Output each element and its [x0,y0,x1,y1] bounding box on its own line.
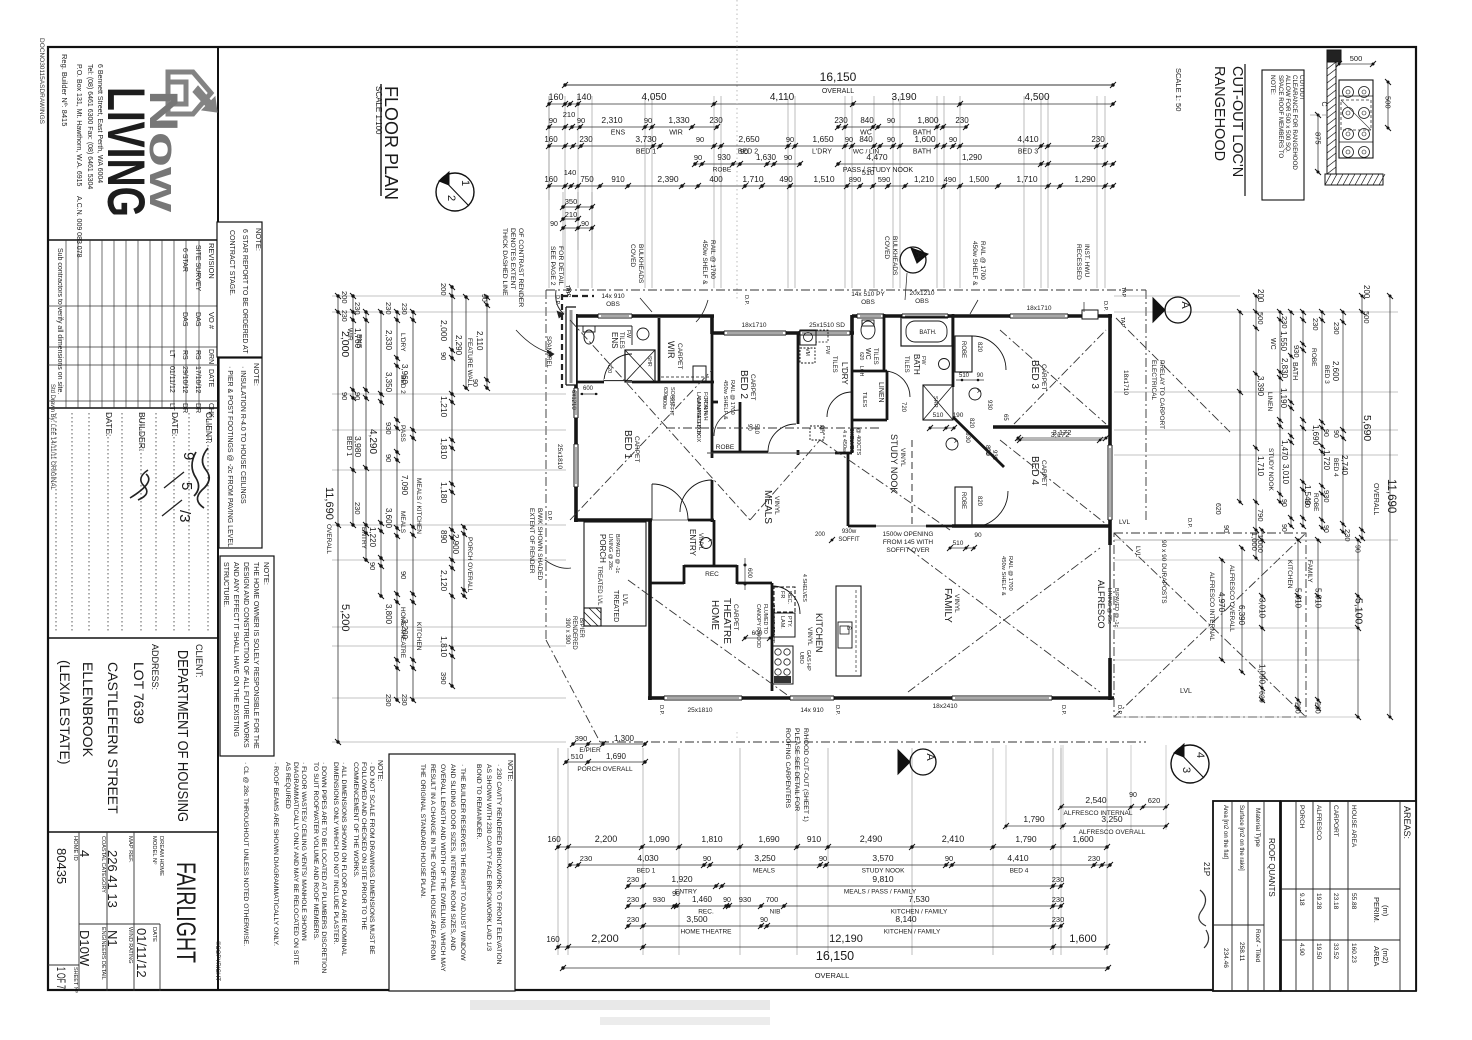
top extension lines [548,96,550,288]
svg-text:1,210: 1,210 [439,396,449,418]
svg-text:200: 200 [439,283,448,296]
svg-text:S: S [845,626,851,630]
svg-text:16,150: 16,150 [816,949,854,963]
window 25x1810 bed1 left [574,444,578,487]
svg-text:4 SHELVES: 4 SHELVES [801,574,807,602]
svg-text:NOTE:: NOTE: [254,228,263,251]
mh manhole [810,426,824,440]
right col family 5010 [1317,540,1319,708]
linen top wall [852,370,887,373]
svg-text:930: 930 [964,432,971,443]
svg-text:25x1810: 25x1810 [688,707,713,714]
svg-text:TO SUIT ROOFWATER VOLUME AND R: TO SUIT ROOFWATER VOLUME AND ROOF MEMBER… [312,762,319,940]
window 18x1710 bed3 [1010,314,1068,318]
roof diagonal theatre [628,580,790,697]
svg-text:P.O. Box 131, Mt. Hawthorn, W.: P.O. Box 131, Mt. Hawthorn, W.A. 6915 [75,64,82,187]
svg-text:ROBE: ROBE [960,492,966,509]
svg-text:DREAM HOME: DREAM HOME [158,836,164,876]
exterior wall bottom theatre section [648,696,664,700]
svg-text:3,010: 3,010 [1281,464,1290,485]
svg-text:1,790: 1,790 [1023,814,1045,824]
svg-text:90: 90 [723,897,731,904]
svg-text:3,172: 3,172 [1053,428,1072,437]
svg-text:COASTAL CATEGORY: COASTAL CATEGORY [100,836,106,893]
bath shower box [923,385,953,420]
study nook bottom wall left [848,525,876,528]
roof quants table outer [1213,801,1280,991]
svg-text:930: 930 [717,153,731,162]
svg-text:230: 230 [955,116,969,125]
svg-text:230: 230 [1052,895,1065,904]
svg-text:CARPET: CARPET [732,604,739,630]
svg-text:OVERALL LENGTH AND WIDTH OF TH: OVERALL LENGTH AND WIDTH OF THE DWELLING… [439,764,446,972]
svg-text:3,960: 3,960 [400,364,409,385]
svg-text:90 x 90 DURAPOSTS: 90 x 90 DURAPOSTS [1160,540,1167,604]
svg-text:SCALE 1:100: SCALE 1:100 [374,86,383,135]
svg-text:ENS: ENS [610,332,619,348]
top dim row 5 robe pass study nook [695,163,800,165]
svg-text:01/11/12: 01/11/12 [134,928,149,978]
svg-text:FOR N/H: FOR N/H [702,398,708,421]
svg-text:18x1710: 18x1710 [1027,305,1052,312]
svg-text:2,120: 2,120 [439,570,449,592]
svg-text:DIMENSIONS ONLY WHICH DO NOT I: DIMENSIONS ONLY WHICH DO NOT INCLUDE PLA… [332,762,339,945]
svg-text:18x1710: 18x1710 [1122,370,1129,395]
svg-text:DR: DR [181,403,188,413]
svg-text:· ROOF BEAMS ARE SHOWN DIAGR: · ROOF BEAMS ARE SHOWN DIAGRAMMATICALLY … [272,762,279,946]
svg-text:PTY.: PTY. [786,616,792,628]
svg-text:NOTE:: NOTE: [376,760,383,781]
svg-text:19.28: 19.28 [1315,893,1322,910]
svg-text:600: 600 [583,386,594,392]
svg-text:CARPORT: CARPORT [1332,805,1339,837]
eaves outline dashed top [546,289,1146,291]
svg-text:4 x 450w: 4 x 450w [841,430,847,452]
svg-text:930: 930 [384,422,393,435]
svg-text:1: 1 [459,180,471,186]
svg-text:PLEASE SEE DETAIL FOR: PLEASE SEE DETAIL FOR [793,728,800,811]
svg-text:CONTRACT STAGE.: CONTRACT STAGE. [228,230,235,296]
wall bed2 bottom [712,451,768,454]
svg-text:REC.: REC. [786,591,792,605]
svg-text:820: 820 [976,342,982,353]
right col 3010 1090 [1261,530,1263,700]
svg-text:2,600: 2,600 [1331,361,1340,382]
svg-text:230: 230 [353,502,362,515]
svg-text:LVL: LVL [621,594,628,606]
svg-text:90: 90 [1129,792,1137,799]
svg-text:THE ORIGINAL STANDARD HOUSE PL: THE ORIGINAL STANDARD HOUSE PLAN. [419,764,426,898]
svg-text:/3: /3 [176,510,193,523]
svg-text:875: 875 [1314,132,1323,145]
svg-text:1,600: 1,600 [914,134,936,144]
svg-text:3,390: 3,390 [1256,376,1265,397]
svg-text:90: 90 [887,135,895,144]
svg-text:18x2410: 18x2410 [933,703,958,710]
svg-text:2,410: 2,410 [942,834,965,844]
ens vanity [637,328,649,340]
svg-text:COMMENCEMENT OF THE WORKS.: COMMENCEMENT OF THE WORKS. [352,762,359,878]
contrast render dashed line [561,294,563,388]
svg-text:230: 230 [1052,875,1065,884]
svg-text:790: 790 [1256,509,1265,522]
left dim col 4290 entry 5200 [380,312,382,596]
svg-text:Std Drawn By: LEE 14/11/11 ORI: Std Drawn By: LEE 14/11/11 ORIGINAL [49,384,55,490]
window 18x2410 family [952,696,1052,700]
window 20x1210 OBS bath [902,314,948,318]
svg-text:1,540: 1,540 [1303,485,1312,506]
svg-text:4,500: 4,500 [1024,92,1049,103]
fold line center bottom faint [736,732,738,740]
fridge recess [774,587,795,612]
svg-text:500: 500 [1362,311,1371,324]
svg-text:PORCH OVERALL: PORCH OVERALL [466,537,473,593]
svg-text:A: A [924,753,936,761]
svg-text:4,410: 4,410 [1007,853,1029,863]
svg-text:2,310: 2,310 [601,115,623,125]
ldry fixtures tub wm [800,330,816,345]
kitchen island bench [836,586,861,676]
svg-text:90: 90 [399,571,408,579]
rangehood dim 875 left [1317,115,1319,172]
roof diagonal bed3 b [1014,330,1106,424]
window 14x510 PY OBS wc [857,314,884,318]
svg-text:90: 90 [439,352,448,360]
svg-text:2,200: 2,200 [591,933,619,945]
svg-text:23.18: 23.18 [1332,893,1339,910]
svg-text:TILES: TILES [831,356,837,373]
svg-text:DAS: DAS [181,312,188,327]
svg-text:1,710: 1,710 [1016,174,1038,184]
top dim row 2 main splits [549,103,1113,105]
right dim col study nook 3390 [1255,296,1257,558]
roof ridge horizontal [666,427,880,429]
NOW LIVING logo house icon [168,72,217,114]
svg-text:90: 90 [480,294,487,302]
svg-text:RANGEHOOD: RANGEHOOD [1211,66,1227,161]
pantry [774,613,795,637]
svg-text:OF CONTRAST RENDER: OF CONTRAST RENDER [517,228,524,307]
svg-text:620: 620 [1214,503,1221,515]
svg-text:BED 1: BED 1 [637,868,656,875]
roof quants grid [1263,801,1265,991]
rangehood detail wall bar bottom [1325,174,1383,185]
svg-text:ROBE: ROBE [716,444,735,451]
svg-text:200: 200 [1256,289,1265,303]
svg-text:PASS: PASS [399,425,406,443]
rangehood cooktop burners [1343,87,1354,98]
svg-text:490: 490 [944,175,957,184]
svg-text:NOTE:: NOTE: [506,760,513,781]
svg-text:FW: FW [920,356,926,365]
linen left wall [851,371,854,420]
svg-text:1,810: 1,810 [439,636,449,658]
alfresco diagonal a [1114,533,1306,717]
family top wall [952,524,1110,528]
svg-text:450w SHELF &: 450w SHELF & [971,241,978,286]
svg-text:2,740: 2,740 [1340,455,1349,476]
bottom extension lines [557,748,559,955]
svg-text:5,200: 5,200 [339,604,351,632]
svg-text:720: 720 [606,364,612,373]
ldry door swing [827,392,852,417]
bed3 robe box [955,336,972,372]
right dim col bath [1290,312,1292,526]
svg-text:AND SLIDING DOOR SIZES, INTERN: AND SLIDING DOOR SIZES, INTERNAL ROOM SI… [449,764,456,951]
svg-text:2,830: 2,830 [1280,358,1289,379]
svg-text:FR: FR [779,591,785,598]
svg-text:B/PAVED @ -1c: B/PAVED @ -1c [614,534,620,574]
svg-text:200: 200 [340,291,349,304]
svg-text:NIB: NIB [770,909,781,916]
bottom dim row 5 home theatre [628,925,1061,927]
svg-text:400: 400 [709,175,723,184]
svg-text:STRUCTURE.: STRUCTURE. [222,562,229,607]
wall entry right [713,520,716,566]
svg-text:RECESSED: RECESSED [1075,244,1082,280]
areas table outer [1281,801,1416,991]
right dim col wc linen [1279,312,1281,502]
svg-text:ENGINEERS DETAIL: ENGINEERS DETAIL [100,927,106,980]
svg-text:160: 160 [548,92,563,102]
svg-text:DR: DR [194,403,201,413]
section marker A bottom [910,749,936,775]
wc toilet [861,321,875,339]
svg-text:PORCH: PORCH [598,534,607,563]
svg-text:CLIENT:: CLIENT: [194,644,204,678]
svg-text:90: 90 [694,153,702,162]
svg-text:ELLENBROOK: ELLENBROOK [80,662,96,758]
svg-text:WC: WC [1269,338,1276,350]
svg-text:230: 230 [400,303,407,315]
svg-text:720: 720 [900,402,906,413]
dim 510 90 bed3 [956,379,984,381]
svg-text:510: 510 [953,540,964,547]
svg-text:230: 230 [1343,529,1352,542]
svg-text:4: 4 [1194,752,1206,758]
svg-text:4,030: 4,030 [637,853,659,863]
svg-text:90: 90 [368,562,377,570]
svg-text:THEATRE: THEATRE [721,598,732,644]
note box home owner responsibility [220,556,274,756]
right dim col bed3 side [1321,312,1323,528]
wall ens wir bottom [576,381,714,384]
wall meals study divider [851,420,854,453]
svg-text:14x 910: 14x 910 [800,707,824,714]
svg-text:BED 1: BED 1 [636,149,656,156]
spandrel feature wall section [566,307,576,385]
svg-text:450w SHELF &: 450w SHELF & [722,380,728,420]
svg-text:ROOFING CARPENTERS: ROOFING CARPENTERS [784,728,791,809]
window 18x1710 bed2 [724,331,786,335]
svg-text:VINYL: VINYL [953,594,960,613]
svg-text:A: A [952,439,958,443]
svg-text:D.P.: D.P. [743,295,749,305]
svg-text:510: 510 [571,752,584,761]
svg-text:PASS / STUDY NOOK: PASS / STUDY NOOK [843,167,913,174]
svg-text:90: 90 [340,392,349,400]
right dim col robe 930 [1302,312,1304,526]
entry door opening [652,519,688,521]
svg-text:NOTE:: NOTE: [1269,75,1276,95]
svg-text:ROOF QUANTS: ROOF QUANTS [1267,838,1276,897]
svg-text:FLUMED TO: FLUMED TO [762,604,768,634]
svg-text:350: 350 [565,197,578,206]
svg-text:BATH: BATH [1291,362,1298,380]
svg-text:NOTE:: NOTE: [252,363,261,386]
svg-text:2,330: 2,330 [384,330,393,351]
svg-text:BED 4: BED 4 [1010,868,1029,875]
svg-text:390 x 390: 390 x 390 [564,618,570,645]
logo box divider [48,239,218,241]
bottom dim row 2 rooms [570,864,1110,866]
svg-text:CARPET: CARPET [1040,460,1047,486]
svg-text:DATE: DATE [207,369,214,387]
wall theatre top left [650,582,684,585]
right dim col bed3 bed4 [1342,312,1344,532]
svg-text:NOTE:: NOTE: [262,562,271,585]
svg-text:WIR: WIR [669,130,683,137]
svg-text:RAIL @ 1700: RAIL @ 1700 [709,240,716,279]
svg-text:PRELAY TO CARPORT: PRELAY TO CARPORT [1158,360,1165,429]
svg-text:11,690: 11,690 [323,487,335,520]
svg-text:21P: 21P [1202,862,1211,876]
svg-text:A: A [913,251,925,259]
svg-text:90: 90 [703,854,711,863]
svg-text:234.46: 234.46 [1222,948,1229,968]
svg-text:THICK DASHED LINE: THICK DASHED LINE [501,228,508,296]
svg-text:230: 230 [1088,854,1101,863]
svg-text:Area [m2 on the flat]: Area [m2 on the flat] [1222,805,1228,859]
svg-text:VINYL: VINYL [697,533,703,551]
svg-text:6 Bennett Street, East Perth,: 6 Bennett Street, East Perth, WA 6004 [96,64,103,183]
svg-text:TILES: TILES [861,392,867,408]
svg-text:MEALS / PASS / FAMILY: MEALS / PASS / FAMILY [844,889,917,896]
svg-text:230: 230 [340,310,347,322]
left dim col meals kitchen outer [412,312,414,700]
svg-text:5,690: 5,690 [1361,415,1373,441]
bed4 robe box [955,487,972,527]
porch pier hatched [584,608,601,626]
svg-text:19.50: 19.50 [1315,943,1322,960]
svg-text:A: A [975,389,981,393]
svg-text:4,290: 4,290 [367,429,378,454]
svg-text:CLIENT:: CLIENT: [204,412,214,444]
top dim row 3 ens wir wc bath [549,126,717,128]
exterior wall top bed2 recessed [712,331,854,335]
alfresco overall row [1006,825,1166,827]
svg-text:SCALE 1: 50: SCALE 1: 50 [1174,68,1183,111]
svg-text:1,180: 1,180 [439,482,449,504]
svg-text:6,390: 6,390 [1237,605,1246,626]
svg-text:MEALS: MEALS [762,490,773,524]
svg-text:90: 90 [581,221,589,228]
svg-text:D.P.: D.P. [1060,705,1066,715]
svg-text:DESIGN AND CONSTRUCTION OF ALL: DESIGN AND CONSTRUCTION OF ALL FUTURE WO… [242,562,249,748]
svg-text:490: 490 [779,175,793,184]
svg-text:OBS: OBS [915,298,929,305]
svg-text:6 STAR REPORT TO BE ORDERED AT: 6 STAR REPORT TO BE ORDERED AT [241,229,248,354]
svg-text:LVL: LVL [1134,546,1141,557]
svg-text:5,010: 5,010 [1314,588,1323,609]
svg-text:DATE:: DATE: [170,412,180,436]
svg-text:1,710: 1,710 [742,174,764,184]
linen right wall [886,371,889,420]
note box 6 star report [217,222,262,357]
wir robe rail dashed [661,376,710,378]
svg-text:FW: FW [824,346,830,355]
svg-text:FAIRLIGHT: FAIRLIGHT [171,862,201,963]
fold line center top [736,0,738,300]
svg-text:25x1510 SD: 25x1510 SD [809,322,845,329]
svg-text:90: 90 [786,135,794,144]
svg-text:BATH: BATH [912,354,921,375]
svg-text:AND ANY EFFECT IT SHALL HAVE O: AND ANY EFFECT IT SHALL HAVE ON THE EXIS… [232,562,239,737]
svg-text:230: 230 [353,302,362,315]
svg-text:RAIL @ 1700: RAIL @ 1700 [729,380,735,415]
svg-text:1,220: 1,220 [368,527,377,548]
porch epier dim row [573,743,645,745]
svg-text:2,110: 2,110 [475,331,484,351]
rangehood cooktop outline [1339,80,1373,158]
step wall bed2 recess right [850,315,854,334]
svg-text:25x1810: 25x1810 [556,444,563,469]
svg-text:TREATED: TREATED [612,590,619,622]
svg-text:9.18: 9.18 [1298,893,1305,906]
areas table grid [1399,801,1401,991]
svg-text:A: A [1179,301,1191,309]
svg-text:16,150: 16,150 [820,70,857,84]
svg-text:OBS: OBS [606,301,620,308]
svg-text:4.90: 4.90 [1298,943,1305,956]
svg-text:840: 840 [859,135,873,144]
svg-text:890: 890 [849,175,862,184]
svg-text:OVERALL: OVERALL [822,88,854,95]
svg-text:90: 90 [384,454,393,462]
svg-text:2,540: 2,540 [1085,795,1107,805]
svg-text:EXTENT OF RENDER: EXTENT OF RENDER [528,508,535,574]
svg-text:1,460: 1,460 [692,895,713,904]
svg-text:230: 230 [627,915,640,924]
svg-text:29/10/12: 29/10/12 [181,366,188,393]
svg-text:TAP: TAP [1119,317,1125,328]
svg-text:FLOOR PLAN: FLOOR PLAN [381,86,401,200]
svg-text:DOCNO30115ASDRAWINGS: DOCNO30115ASDRAWINGS [38,38,45,125]
svg-text:230: 230 [1280,316,1289,329]
svg-text:1,800: 1,800 [917,115,939,125]
svg-text:REVISION: REVISION [207,243,216,279]
svg-text:D.P.: D.P. [1186,518,1192,528]
client address box divider [48,831,218,833]
svg-text:(m): (m) [1381,905,1390,917]
svg-text:840: 840 [860,116,874,125]
svg-text:600w: 600w [661,396,667,409]
svg-text:DRN: DRN [207,349,214,364]
svg-text:DENOTES EXTENT: DENOTES EXTENT [509,228,516,290]
kitchen sink [838,622,852,648]
svg-text:Roof - Tiled: Roof - Tiled [1254,929,1261,963]
ens shower [625,350,655,382]
svg-text:750: 750 [580,175,594,184]
svg-text:620: 620 [858,352,864,361]
svg-text:LVL: LVL [1180,688,1192,695]
section marker A top [900,247,926,273]
svg-text:3,570: 3,570 [872,853,894,863]
signatures box divider [48,637,218,639]
kitchen door swing [772,586,800,614]
svg-text:450w SHELF &: 450w SHELF & [701,240,708,285]
svg-text:160: 160 [546,935,560,944]
